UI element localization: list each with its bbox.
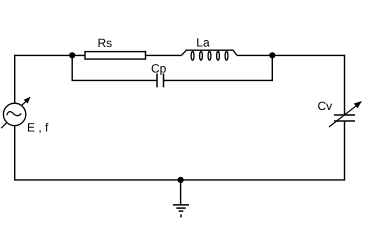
inductor La [182,50,237,60]
AC source E,f circle [3,103,25,125]
wire Cp branch left drop [72,55,157,80]
variable capacitor Cv arrow [329,105,357,127]
AC source arrow upper-right segment [22,100,27,105]
svg-text:Cp: Cp [151,61,167,75]
AC source sine wave [7,112,21,116]
svg-text:La: La [196,36,210,50]
capacitor Cp [157,74,164,88]
wire left vertical upper [14,55,16,104]
wire right vertical upper [344,55,346,115]
svg-text:Cv: Cv [318,99,333,113]
ground [173,205,189,218]
wire ground stem [180,180,182,205]
wire left vertical lower [14,125,16,179]
wire top middle (resistor to inductor) [146,54,182,56]
wire top right (inductor to right corner) [237,54,345,56]
variable capacitor Cv [334,115,355,121]
svg-text:Rs: Rs [98,36,113,50]
wire bottom [14,179,345,181]
wire top-left segment [15,54,85,56]
node junction dot right [269,52,275,58]
resistor Rs [85,52,146,60]
node junction dot left [69,52,75,58]
svg-text:E , f: E , f [27,121,49,135]
wire right vertical lower [344,121,346,180]
node junction dot ground [178,177,184,183]
AC source arrowhead [24,97,31,104]
AC source arrow lower-left segment [1,123,6,128]
wire Cp branch right rise [164,55,273,80]
